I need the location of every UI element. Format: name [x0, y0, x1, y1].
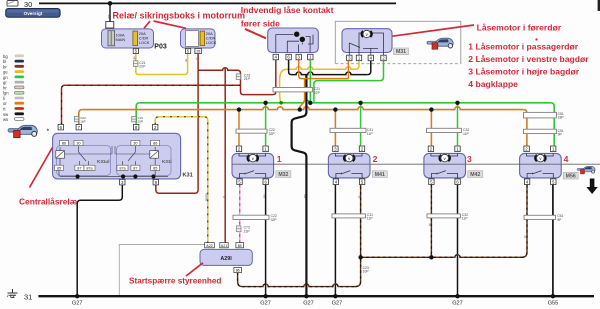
svg-text:3: 3: [467, 154, 472, 164]
svg-text:3 Låsemotor i højre bagdør: 3 Låsemotor i højre bagdør: [468, 67, 579, 77]
svg-text:32P: 32P: [271, 218, 278, 222]
svg-text:2 Låsemotor i venstre bagdør: 2 Låsemotor i venstre bagdør: [468, 54, 589, 64]
svg-text:M32: M32: [278, 172, 288, 178]
svg-text:Oversigt: Oversigt: [24, 11, 43, 16]
svg-text:32P: 32P: [269, 132, 276, 136]
svg-text:18P: 18P: [558, 116, 565, 120]
svg-text:86: 86: [62, 142, 66, 146]
svg-text:br: br: [357, 195, 361, 198]
svg-text:85: 85: [57, 166, 61, 170]
svg-text:30: 30: [24, 0, 32, 9]
svg-text:or: or: [3, 101, 7, 106]
svg-text:30: 30: [76, 142, 80, 146]
svg-text:LOCK: LOCK: [206, 40, 217, 45]
svg-text:86: 86: [153, 142, 157, 146]
svg-text:M56: M56: [566, 174, 576, 180]
svg-text:K31l: K31l: [162, 159, 172, 164]
svg-text:br: br: [523, 235, 527, 238]
svg-text:br: br: [3, 64, 7, 69]
svg-text:21P: 21P: [244, 77, 251, 81]
svg-text:ge/sw: ge/sw: [204, 192, 208, 201]
svg-text:M42: M42: [470, 172, 480, 178]
svg-text:Centrallåsrelæ: Centrallåsrelæ: [19, 197, 78, 207]
svg-text:22P: 22P: [314, 91, 321, 95]
svg-text:11P: 11P: [463, 132, 470, 136]
svg-text:Låsemotor i førerdør: Låsemotor i førerdør: [477, 23, 562, 33]
svg-text:ws: ws: [3, 117, 8, 122]
svg-text:fører side: fører side: [241, 19, 280, 29]
svg-text:11P: 11P: [462, 217, 469, 221]
svg-text:A22: A22: [206, 244, 212, 248]
svg-text:G27: G27: [260, 301, 271, 307]
svg-text:lgn: lgn: [3, 91, 9, 96]
svg-text:1 Låsemotor i passagerdør: 1 Låsemotor i passagerdør: [468, 42, 579, 52]
svg-text:87a: 87a: [86, 166, 93, 170]
svg-text:G27: G27: [72, 301, 83, 307]
svg-text:*: *: [47, 129, 50, 136]
svg-text:M31: M31: [396, 49, 406, 55]
svg-text:Relæ/ sikringsboks i motorrum: Relæ/ sikringsboks i motorrum: [113, 11, 246, 21]
svg-text:85: 85: [153, 166, 157, 170]
svg-text:Startspærre styreenhed: Startspærre styreenhed: [129, 276, 221, 285]
svg-text:31: 31: [24, 293, 32, 302]
svg-text:4: 4: [564, 154, 569, 164]
svg-text:G27: G27: [452, 301, 463, 307]
svg-text:9P: 9P: [558, 133, 563, 137]
svg-text:Indvendig låse kontakt: Indvendig låse kontakt: [241, 5, 334, 15]
svg-text:A29I: A29I: [220, 256, 232, 262]
svg-text:G27: G27: [303, 301, 314, 307]
svg-text:11P: 11P: [367, 217, 374, 221]
svg-text:16P: 16P: [138, 120, 144, 124]
svg-text:hr: hr: [3, 85, 7, 90]
svg-text:87: 87: [133, 166, 137, 170]
svg-text:21P: 21P: [244, 229, 251, 233]
svg-text:ge: ge: [3, 70, 8, 75]
svg-text:2: 2: [373, 154, 378, 164]
svg-text:10P: 10P: [363, 270, 370, 274]
svg-text:84: 84: [238, 244, 242, 248]
svg-text:LOCK: LOCK: [139, 40, 150, 45]
svg-text:G27: G27: [332, 301, 343, 307]
svg-text:br: br: [428, 223, 432, 226]
svg-text:rt: rt: [221, 196, 225, 198]
svg-text:87a: 87a: [119, 166, 126, 170]
svg-text:87: 87: [77, 166, 81, 170]
svg-text:11P: 11P: [367, 132, 374, 136]
svg-text:bg: bg: [3, 54, 8, 59]
svg-text:rt: rt: [3, 107, 6, 112]
svg-text:K31ul: K31ul: [97, 159, 110, 164]
svg-text:MAIN: MAIN: [116, 37, 126, 42]
svg-text:A21: A21: [221, 244, 227, 248]
svg-text:30: 30: [133, 142, 137, 146]
svg-text:9P: 9P: [557, 218, 562, 222]
svg-text:gr: gr: [3, 80, 7, 85]
svg-text:M41: M41: [375, 172, 385, 178]
svg-text:G55: G55: [548, 301, 559, 307]
svg-text:4 bagklappe: 4 bagklappe: [468, 79, 518, 89]
svg-text:ge: ge: [132, 56, 136, 60]
svg-text:K31: K31: [183, 173, 193, 179]
svg-text:86: 86: [236, 269, 240, 273]
svg-text:1: 1: [277, 154, 282, 164]
svg-text:16P: 16P: [80, 120, 86, 124]
svg-text:22P: 22P: [139, 65, 146, 69]
svg-text:P03: P03: [154, 44, 167, 51]
svg-text:16: 16: [196, 50, 200, 54]
